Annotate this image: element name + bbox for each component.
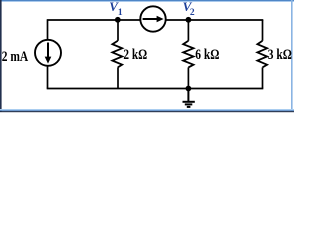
resistor 6 kOhm	[183, 41, 193, 68]
node: ground junction	[186, 86, 192, 92]
wire: top rail right of current source to right corner	[165, 19, 263, 21]
node V1	[115, 17, 121, 23]
svg-text:6 kΩ: 6 kΩ	[195, 47, 219, 63]
wire: right rail top segment	[262, 20, 264, 41]
resistor 2 kOhm	[112, 41, 122, 68]
wire: resistor 2k to bottom rail	[117, 67, 119, 88]
wire: resistor 6k to ground node	[187, 67, 189, 88]
svg-text:2 kΩ: 2 kΩ	[123, 47, 147, 63]
wire: V1 node to resistor 2k	[117, 20, 119, 41]
svg-text:2: 2	[190, 8, 195, 18]
current source 2 mA (left, arrow down)	[35, 40, 61, 66]
wire: right rail bottom segment	[262, 67, 264, 88]
label V1	[109, 0, 123, 18]
current source (top, arrow right from V1 to V2)	[140, 6, 165, 31]
wire: left rail bottom segment	[47, 66, 49, 89]
svg-text:1: 1	[118, 8, 123, 18]
wire: left rail top segment	[47, 21, 49, 40]
wire: top rail from left corner to V2 area	[47, 19, 141, 21]
resistor 3 kOhm	[257, 41, 267, 68]
wire: V2 node to resistor 6k	[187, 20, 189, 41]
wire: bottom rail	[47, 88, 264, 90]
label V2	[183, 0, 195, 18]
svg-text:2 mA: 2 mA	[2, 49, 29, 65]
node V2	[186, 17, 192, 23]
ground	[183, 89, 195, 107]
svg-text:3 kΩ: 3 kΩ	[268, 47, 292, 63]
